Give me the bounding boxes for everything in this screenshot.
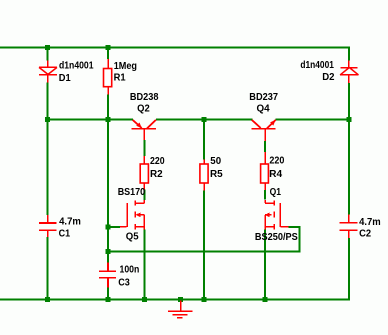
svg-text:4.7m: 4.7m [59, 217, 81, 228]
junction top rail / D1 [45, 45, 50, 50]
capacitor C3 [99, 262, 116, 287]
svg-text:D2: D2 [322, 72, 335, 83]
junction gate bus / C3 branch [106, 249, 111, 254]
capacitor C1 [39, 215, 56, 237]
svg-text:d1n4001: d1n4001 [300, 60, 334, 71]
wire Q2-R2-Q5 branch [143, 140, 145, 299]
wire D1/C1 branch [47, 49, 49, 299]
junction bottom rail / C3 [106, 297, 111, 302]
svg-text:Q2: Q2 [137, 104, 150, 115]
wire bottom rail [0, 299, 350, 301]
svg-text:D1: D1 [59, 73, 71, 84]
svg-text:Q5: Q5 [126, 231, 139, 242]
svg-text:R4: R4 [269, 169, 282, 180]
wire Q5 gate [108, 226, 120, 228]
wire R1/C3 branch [107, 49, 109, 299]
svg-text:R1: R1 [114, 73, 126, 84]
resistor R5 [200, 160, 208, 191]
transistor Q4 [252, 120, 276, 141]
svg-text:Q1: Q1 [270, 187, 282, 198]
svg-text:220: 220 [150, 156, 165, 167]
junction mid rail / R1 branch [106, 117, 111, 122]
mosfet Q5 [120, 200, 144, 230]
wire Q4-R4-Q1 branch [264, 141, 266, 299]
diode D1 [39, 60, 57, 82]
resistor R1 [104, 59, 112, 95]
svg-text:BS170: BS170 [118, 187, 146, 198]
resistor R4 [261, 152, 269, 190]
wire Q1 gate loop [108, 226, 301, 252]
svg-text:C2: C2 [359, 229, 371, 240]
svg-text:4.7m: 4.7m [359, 217, 381, 228]
junction bottom rail / Q5 source [142, 297, 147, 302]
svg-text:R5: R5 [210, 169, 223, 180]
junction bottom rail / ground [178, 297, 183, 302]
junction top rail / R1 [106, 45, 111, 50]
ground [168, 301, 192, 318]
svg-text:50: 50 [210, 156, 221, 167]
svg-text:BS250/PS: BS250/PS [255, 232, 298, 243]
transistor Q2 [132, 120, 156, 140]
wire top rail [0, 47, 350, 49]
wire R5 branch [203, 121, 205, 299]
svg-text:BD238: BD238 [130, 92, 159, 103]
junction Q5 gate node [106, 224, 111, 229]
wire mid rail [47, 119, 350, 121]
diode D2 [340, 60, 358, 83]
svg-text:d1n4001: d1n4001 [59, 61, 94, 72]
junction mid rail / D2-C2 [346, 117, 351, 122]
svg-text:Q4: Q4 [257, 104, 271, 115]
svg-text:1Meg: 1Meg [114, 61, 137, 72]
junction bottom rail / R5 [202, 297, 207, 302]
svg-text:220: 220 [269, 156, 284, 167]
capacitor C2 [340, 215, 358, 238]
svg-text:100n: 100n [120, 264, 140, 275]
svg-text:C3: C3 [118, 278, 130, 289]
wire right vertical [348, 47, 350, 301]
junction bottom rail / C1 [45, 297, 50, 302]
resistor R2 [140, 156, 148, 190]
mosfet Q1 [265, 200, 289, 230]
junction bottom rail / Q1 source [263, 297, 268, 302]
junction mid rail / R5 [202, 117, 207, 122]
svg-text:R2: R2 [150, 169, 163, 180]
svg-text:BD237: BD237 [249, 92, 278, 103]
junction mid rail / D1-C1 [45, 117, 50, 122]
svg-text:C1: C1 [59, 229, 71, 240]
